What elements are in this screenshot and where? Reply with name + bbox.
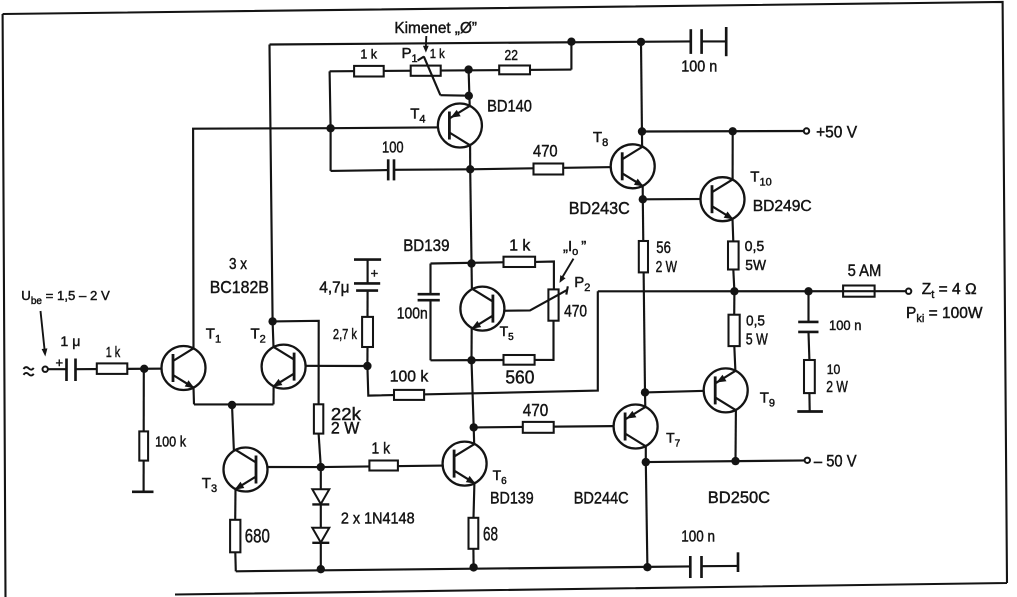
- svg-text:BD140: BD140: [487, 97, 532, 116]
- svg-text:BD139: BD139: [403, 236, 449, 255]
- resistor 1k T3 to T6: [369, 441, 398, 471]
- terminal -50V: [805, 453, 857, 471]
- wire T2 collector node to 22k: [273, 321, 319, 405]
- svg-text:1 k: 1 k: [106, 344, 121, 361]
- junction input 1k node: [140, 365, 148, 373]
- svg-text:68: 68: [483, 525, 498, 546]
- wire T2 base: [295, 365, 368, 367]
- capacitor 100n output RC: [798, 317, 861, 333]
- transistor T2 BC182B: [251, 326, 306, 389]
- junction output 0.5 node: [730, 287, 738, 295]
- transistor T8 BD243C: [569, 129, 655, 218]
- svg-text:1 k: 1 k: [360, 48, 377, 62]
- capacitor 1u input: [56, 333, 81, 381]
- wire input terminal to 1u cap: [48, 368, 66, 370]
- svg-text:+: +: [371, 266, 379, 281]
- svg-text:470: 470: [523, 400, 549, 420]
- wire -50V rail: [646, 460, 807, 462]
- junction P1 row node: [464, 65, 472, 73]
- wire P2 bottom to 560: [535, 321, 554, 360]
- wire T6 emitter to 68: [472, 483, 475, 518]
- wire T2 base node to 100k feedback to output rail: [367, 291, 597, 395]
- wire T8 emitter: [642, 186, 644, 199]
- resistor 0.5 5W lower: [729, 313, 769, 349]
- transistor T5 BD139: [403, 236, 514, 343]
- wire T4 emitter to P1 node: [469, 70, 470, 107]
- wire RC 100n to 10: [807, 332, 810, 360]
- transistor T6 BD139: [443, 442, 534, 508]
- capacitor 100n T5 loop: [397, 294, 440, 322]
- junction emitter rail node: [228, 401, 236, 409]
- junction T5 loop bottom node: [467, 356, 475, 364]
- resistor 100k feedback: [390, 369, 429, 400]
- wire top 100n to end bar: [702, 40, 727, 42]
- wire input node down to 100k and ground: [143, 369, 145, 492]
- svg-text:470: 470: [533, 143, 558, 161]
- svg-text:2,7 k: 2,7 k: [333, 327, 358, 343]
- junction top rail 100n node: [637, 38, 645, 46]
- svg-text:3 x: 3 x: [229, 256, 247, 273]
- wire T6 collector: [473, 427, 476, 444]
- junction T4 collector node: [466, 165, 474, 173]
- junction T7 emitter node: [641, 388, 649, 396]
- wire 56 chain to T7 emitter node: [643, 199, 645, 392]
- diode D1 1N4148: [312, 489, 329, 504]
- transistor T10 BD249C: [701, 169, 812, 222]
- wire top rail to T8 collector: [641, 42, 642, 146]
- svg-text:100n: 100n: [397, 306, 428, 323]
- svg-text:2 W: 2 W: [656, 259, 678, 276]
- svg-text:680: 680: [245, 527, 270, 548]
- ground symbol input: [132, 490, 154, 493]
- wire T3 emitter to 680: [234, 489, 236, 520]
- svg-text:100 n: 100 n: [681, 58, 717, 75]
- svg-text:BC182B: BC182B: [210, 277, 269, 297]
- svg-text:BD250C: BD250C: [708, 488, 770, 507]
- label Kimenet 0 with arrow: [394, 20, 477, 52]
- wire T1-T2 emitter rail: [194, 403, 274, 405]
- terminal output Zt 4ohm: [906, 281, 983, 325]
- junction T4 base node: [326, 124, 334, 132]
- transistor T4 BD140: [410, 97, 532, 148]
- junction top rail 22 node: [567, 38, 575, 46]
- wire T8 emitter to T10 base: [643, 198, 712, 201]
- svg-text:+: +: [56, 355, 64, 370]
- svg-text:BD243C: BD243C: [569, 198, 630, 218]
- svg-text:10: 10: [827, 361, 841, 377]
- wire 100 cap left: [331, 169, 388, 172]
- wire T7 emitter: [644, 392, 646, 407]
- svg-text:1 μ: 1 μ: [60, 333, 80, 349]
- wire main vertical T5 to T6: [472, 360, 474, 427]
- junction T2 base node: [363, 362, 371, 370]
- junction +50V T8 node: [638, 127, 646, 135]
- svg-text:2 W: 2 W: [331, 420, 360, 438]
- transistor T7 BD244C: [574, 405, 681, 508]
- svg-text:5W: 5W: [745, 257, 766, 274]
- wire 1k to P2 top: [535, 262, 554, 290]
- label Io with arrow: [560, 238, 587, 283]
- resistor 2.7k: [333, 317, 373, 347]
- svg-text:BD139: BD139: [490, 489, 534, 508]
- transistor T9 BD250C: [704, 368, 775, 507]
- wire T9 base: [645, 391, 715, 393]
- wire T5 emitter down: [470, 328, 472, 361]
- wire bottom 100n to end bar: [702, 565, 739, 567]
- svg-text:100: 100: [382, 139, 404, 156]
- svg-text:4,7μ: 4,7μ: [319, 280, 349, 297]
- wire 680 to bottom rail: [234, 552, 237, 571]
- wire T1 emitter: [192, 388, 195, 405]
- svg-text:2 x 1N4148: 2 x 1N4148: [341, 511, 415, 528]
- transistor T1 BC182B: [162, 326, 222, 391]
- svg-text:Kimenet „Ø”: Kimenet „Ø”: [394, 20, 477, 37]
- wire T1 collector up to T4 base: [193, 127, 450, 349]
- label Ube with arrow: [21, 288, 110, 357]
- resistor 680: [230, 520, 270, 553]
- svg-text:22: 22: [505, 48, 518, 64]
- resistor 1k input: [97, 344, 128, 374]
- wire T3 collector to emitter rail: [232, 405, 234, 451]
- wire 470 row to T7 base: [474, 426, 625, 427]
- resistor 1k T5 loop: [504, 238, 536, 268]
- wire T10 collector: [732, 131, 734, 180]
- wire 10 to ground: [808, 393, 810, 411]
- junction +50V T10 node: [729, 127, 737, 135]
- svg-text:+50 V: +50 V: [816, 124, 857, 142]
- resistor 68: [469, 518, 499, 549]
- resistor 0.5 5W upper: [728, 238, 767, 274]
- wire T9 collector to -50V rail: [734, 410, 737, 461]
- resistor 22k 2W: [314, 404, 361, 438]
- potentiometer P2 470 with wiper: [493, 274, 590, 321]
- wire T7 collector: [645, 446, 647, 462]
- terminal input with ~: [24, 367, 48, 376]
- capacitor 100 miller: [382, 139, 404, 180]
- svg-text:BD249C: BD249C: [753, 198, 812, 215]
- resistor 10 2W: [804, 360, 849, 396]
- wire 22k to T3 base node: [319, 434, 321, 468]
- svg-text:0,5: 0,5: [745, 238, 765, 255]
- resistor 1k top row: [354, 48, 384, 77]
- wire T5 loop left lower: [429, 300, 431, 360]
- junction -50V T9 node: [731, 457, 739, 465]
- resistor 56 2W: [639, 239, 678, 276]
- resistor 470 T6 to T7: [523, 400, 554, 433]
- junction T2 collector node: [268, 317, 276, 325]
- wire +50V rail: [642, 130, 806, 133]
- diode D2 1N4148: [312, 528, 329, 543]
- junction T6 collector node: [470, 423, 478, 431]
- wire T4 collector to 470 to T8 base: [470, 167, 622, 169]
- wire output rail: [598, 290, 909, 292]
- wire T2 emitter: [272, 386, 274, 404]
- junction bottom rail right node: [643, 563, 651, 571]
- resistor 560 T5 loop: [504, 355, 535, 387]
- wire T5 loop top: [431, 262, 536, 264]
- svg-text:56: 56: [656, 239, 671, 257]
- svg-text:5 AM: 5 AM: [848, 261, 882, 280]
- label 3x BC182B: [210, 256, 269, 297]
- capacitor 4.7u electrolytic: [319, 260, 381, 297]
- wire output node to lower 0.5: [733, 291, 735, 315]
- resistor 22: [499, 48, 530, 74]
- wire 22 to top rail: [570, 42, 572, 70]
- wire 1u cap to 1k to T1 base: [76, 368, 174, 371]
- wire 0.5 to output rail: [733, 269, 734, 291]
- wire T5 loop bottom: [431, 359, 505, 361]
- junction diodes bottom node: [317, 565, 325, 573]
- wire bottom rail: [236, 566, 691, 571]
- wire T3 base: [256, 466, 321, 468]
- junction T8 emitter node: [639, 195, 647, 203]
- svg-text:470: 470: [564, 302, 587, 320]
- svg-text:1 k: 1 k: [509, 238, 531, 255]
- svg-text:2 W: 2 W: [826, 379, 848, 396]
- svg-text:100 n: 100 n: [681, 528, 715, 545]
- fuse 5AM: [843, 261, 881, 297]
- svg-text:560: 560: [505, 367, 534, 387]
- wire T10 emitter to 0.5: [731, 219, 734, 242]
- wire top rail: [270, 41, 690, 44]
- svg-text:1 k: 1 k: [430, 47, 446, 61]
- wire T4 collector down: [469, 145, 471, 169]
- capacitor 100n top: [681, 27, 726, 75]
- wire T2 collector up to top rail: [270, 45, 274, 348]
- wire T3 base node to 1k to T6 base: [321, 465, 455, 467]
- svg-text:100 k: 100 k: [390, 369, 429, 386]
- wire T5 loop left upper: [429, 264, 431, 295]
- junction 68 bottom node: [469, 563, 477, 571]
- svg-text:100 k: 100 k: [155, 434, 186, 451]
- svg-text:– 50 V: – 50 V: [814, 453, 857, 471]
- junction -50V T7 node: [642, 458, 650, 466]
- wire 2.7k to T2 base node: [366, 347, 368, 366]
- wire lower 0.5 to T9 emitter: [734, 346, 735, 371]
- terminal +50V: [804, 124, 857, 142]
- transistor T3 BC182B: [202, 448, 268, 496]
- resistor 470 T4 to T8: [533, 143, 563, 175]
- wire left vertical to T4 base node: [330, 71, 331, 171]
- svg-text:1 k: 1 k: [372, 441, 391, 458]
- junction T3 base node: [317, 463, 325, 471]
- wire diode chain: [320, 467, 322, 569]
- potentiometer P1 1k with wiper: [402, 45, 469, 96]
- wire 4.7u to 2.7k: [366, 291, 368, 318]
- svg-text:BD244C: BD244C: [574, 489, 629, 508]
- junction output RC node: [804, 287, 812, 295]
- ground symbol output RC: [797, 410, 823, 413]
- wire T7 collector to bottom rail: [646, 462, 648, 567]
- wire P1 resistor row: [330, 70, 572, 72]
- wire output node to RC 100n: [807, 291, 809, 321]
- capacitor 100n bottom: [681, 528, 738, 578]
- junction T5 loop top node: [467, 259, 475, 267]
- junction P1 wiper node: [465, 92, 473, 100]
- svg-text:5 W: 5 W: [746, 332, 768, 349]
- wire 100 cap right to T4 collector node: [394, 168, 470, 171]
- wire main vertical T4 to T5: [470, 169, 472, 290]
- resistor 100k input: [139, 431, 186, 460]
- svg-text:0,5: 0,5: [746, 313, 765, 330]
- svg-text:100 n: 100 n: [829, 317, 861, 333]
- wire 68 to bottom rail: [472, 549, 474, 568]
